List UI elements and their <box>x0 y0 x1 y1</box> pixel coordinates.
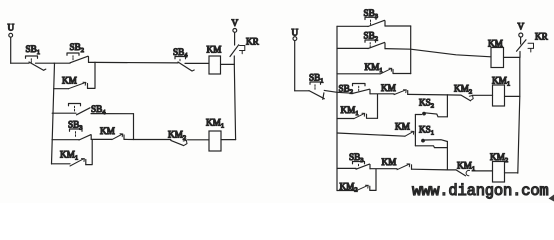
thermal relay contact KR (left circuit) <box>230 32 260 64</box>
wire SB4 to coil KM <box>95 62 209 63</box>
contact KM (NO, rung B, left circuit) <box>91 126 124 140</box>
contact KM1 (NC interlock, bottom rung, right circuit) <box>456 161 493 176</box>
wire KM2 branch start <box>337 190 356 192</box>
wire KM1 parallel branch <box>52 163 71 165</box>
terminal V (right circuit) <box>518 22 525 37</box>
wire rail U to SB1 (right circuit) <box>295 90 309 92</box>
wire self-lock branch right <box>88 62 96 88</box>
svg-text:KM1: KM1 <box>206 118 224 130</box>
contact KM2 (NC interlock, left circuit) <box>168 129 209 145</box>
coil KM1 (right circuit) <box>492 76 510 107</box>
svg-text:U: U <box>8 23 15 33</box>
wire self-lock branch left <box>54 88 69 90</box>
terminal U (left circuit) <box>8 23 15 38</box>
wire KS1 rung from bus <box>337 133 405 136</box>
wire rung1 start <box>337 25 368 27</box>
coil KM (right circuit) <box>488 39 504 68</box>
svg-text:www.diangon.com: www.diangon.com <box>412 182 549 200</box>
wire rail U to SB1 <box>11 62 29 64</box>
svg-text:V: V <box>518 22 525 32</box>
svg-text:U: U <box>292 28 299 38</box>
wire left bus (left circuit) <box>52 63 55 164</box>
pushbutton SB2 (NO start, main rung, right circuit) <box>337 84 370 96</box>
contact KM (self-lock NO, left circuit) <box>62 76 88 89</box>
svg-text:KS1: KS1 <box>419 125 434 137</box>
pushbutton SB4 (NC jog interlock, top, left circuit) <box>173 47 194 71</box>
wire bottom rung start <box>337 167 356 169</box>
svg-text:KM: KM <box>207 45 222 55</box>
wire right bus (right circuit) <box>518 57 520 173</box>
contact KM (NO, middle rung, right circuit) <box>395 122 415 137</box>
svg-text:KM2: KM2 <box>454 84 472 96</box>
svg-text:SB3: SB3 <box>349 152 364 164</box>
wire SB3 to KM (bottom rung) <box>370 168 397 170</box>
svg-text:SB3: SB3 <box>68 120 83 132</box>
wire coil KM to right bus <box>221 63 235 65</box>
svg-text:KM2: KM2 <box>340 182 358 194</box>
wire rung A (jog) <box>52 112 133 115</box>
wire SB2 to rail segment <box>89 61 96 63</box>
svg-text:KM1: KM1 <box>492 76 510 88</box>
pushbutton SB2 (NC interlock, rung2, right circuit) <box>364 31 386 49</box>
coil KM2 (right circuit) <box>490 152 508 182</box>
svg-text:KS2: KS2 <box>419 98 434 110</box>
wire node B upper vertical (KS2 to main rung) <box>446 95 448 117</box>
wire KS pair left vertical <box>414 115 416 146</box>
wire coil KM2 to right bus <box>505 172 518 174</box>
pushbutton SB4 (NO jog, lower, left circuit) <box>69 104 107 117</box>
pushbutton SB3 (NO start, bottom rung, right circuit) <box>349 152 370 169</box>
wire KM1 branch start <box>337 118 354 120</box>
contact KM2 (NC interlock, main rung, right circuit) <box>447 84 492 101</box>
terminal U (right circuit) <box>292 28 299 41</box>
wire bottom rung to node B <box>412 168 457 171</box>
svg-text:SB2: SB2 <box>70 42 85 54</box>
pushbutton SB3 (NC interlock, top rung, right circuit) <box>364 8 386 27</box>
wire rung B middle <box>124 138 171 140</box>
contact KM (NO, main rung, right circuit) <box>381 83 408 95</box>
svg-text:KM: KM <box>100 126 115 136</box>
wire rung2 to coil KM <box>385 49 491 57</box>
wire KM2 branch drop <box>375 169 377 190</box>
svg-text:SB1: SB1 <box>309 73 324 85</box>
wire left bus (right circuit) <box>336 26 338 190</box>
pushbutton SB1 (NC stop, right circuit) <box>309 73 324 100</box>
wire node B lower vertical (KS1 to bottom rung) <box>446 142 448 170</box>
thermal relay contact KR (right circuit) <box>517 32 549 58</box>
contact KM1 (NO, parallel SB3, left circuit) <box>60 140 92 166</box>
contact KS1 (speed relay NO, right circuit) <box>415 125 447 148</box>
node A junction <box>54 62 70 64</box>
wire rung3 start <box>337 73 380 75</box>
wire right bus (left circuit) <box>234 64 235 139</box>
svg-text:SB1: SB1 <box>26 44 41 56</box>
wire coil KM1 to right bus <box>221 139 236 141</box>
svg-text:KR: KR <box>246 37 260 47</box>
svg-text:KR: KR <box>535 32 549 42</box>
wire group right bus <box>410 26 412 74</box>
pushbutton SB3 (NO, lower, left circuit) <box>68 120 91 141</box>
wire rung1 to group bus <box>385 25 411 27</box>
contact KM (NO, bottom rung, right circuit) <box>382 157 412 170</box>
contact KM1 (NO self-lock, rung3, right circuit) <box>365 62 411 74</box>
wire rung A drop <box>133 114 135 140</box>
pushbutton SB2 (NO start, left circuit) <box>67 42 89 63</box>
svg-text:KM: KM <box>395 122 410 132</box>
terminal V (left circuit) <box>232 18 239 32</box>
wire coil KM to right bus <box>504 56 520 58</box>
wire SB2 to KM (main rung) <box>370 93 394 95</box>
contact KM2 (NO, parallel SB3, right circuit) <box>340 182 377 194</box>
pushbutton SB1 (NC stop, left circuit) <box>26 44 46 70</box>
wire rail SB1 to node A <box>36 62 55 64</box>
svg-text:KM1: KM1 <box>365 62 383 74</box>
wire U drop to rail <box>10 37 12 63</box>
svg-text:KM1: KM1 <box>60 150 78 162</box>
coil KM1 (left circuit) <box>206 118 224 152</box>
wire U drop (right circuit) <box>294 41 296 91</box>
wire SB1 to left bus (right circuit) <box>324 90 337 92</box>
corner mark <box>549 195 554 202</box>
svg-text:KM: KM <box>62 76 77 86</box>
wire rung2 start <box>337 47 368 49</box>
wire rung B start <box>52 139 79 141</box>
svg-text:V: V <box>232 18 239 28</box>
svg-text:KM1: KM1 <box>341 105 359 117</box>
wire coil KM1 to right bus <box>505 95 520 97</box>
wire main rung KM to node B <box>408 93 448 96</box>
contact KM1 (NO, parallel SB2, right circuit) <box>341 105 378 119</box>
coil KM (left circuit) <box>207 45 222 75</box>
svg-text:KM: KM <box>382 157 397 167</box>
wire KM1 branch drop <box>377 94 379 118</box>
contact KS2 (speed relay NO, right circuit) <box>415 98 447 117</box>
svg-text:KM: KM <box>381 83 396 93</box>
